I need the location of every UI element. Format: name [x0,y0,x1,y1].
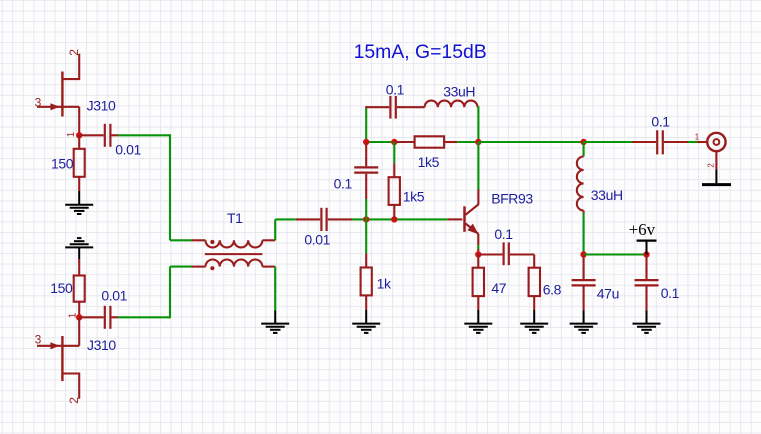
svg-text:1k5: 1k5 [403,189,425,205]
ground below R6 [464,310,492,333]
pin 1 label (connector) [695,132,700,141]
value label 0.01 (bottom) [101,288,127,304]
svg-text:47: 47 [491,280,506,296]
svg-text:2: 2 [67,49,81,56]
value label 1k [377,275,392,291]
phase dot T1 secondary [210,266,214,270]
value label 0.1 (emitter) [494,226,513,242]
node D junction (base row right) [391,216,397,222]
wire corner to T1 primary [170,239,192,241]
svg-text:0.01: 0.01 [304,231,330,247]
phase dot T1 primary [210,240,214,244]
transistor Q1 J310 (top JFET) body [37,54,79,117]
wire C2 to corner (bottom) [118,316,170,318]
connector X1 pin lead [697,141,706,143]
wire collector up [477,142,479,204]
wire C1 to corner [118,134,170,136]
svg-text:0.1: 0.1 [651,113,670,129]
pin 1 label (Q2 source) [67,312,78,318]
transformer T1 core [205,253,263,255]
wire top loop right vertical [476,106,479,142]
transistor Q2 J310 (bottom JFET) body [37,336,79,399]
wire T1 secondary down to ground [274,267,276,311]
wire mid row to node H [478,141,583,143]
ground below T1 secondary [261,311,289,333]
label J310 (top) [87,97,116,113]
ground below C8 [570,310,598,333]
resistor R6 47 [473,255,484,310]
svg-text:0.1: 0.1 [494,226,513,242]
svg-text:6.8: 6.8 [543,281,562,297]
svg-text:+6v: +6v [629,220,656,239]
resistor R2 150 (bottom) [74,259,85,317]
capacitor C6 0.1 (vertical mid) [354,142,378,219]
capacitor C2 0.01 (bottom) [79,306,118,329]
inductor L2 33uH (vertical) [577,142,584,255]
pin 2 label (Q2 drain) [67,397,81,404]
value label 0.1 (top loop) [386,82,405,98]
svg-text:T1: T1 [227,210,243,226]
resistor R7 6.8 [529,255,540,310]
node H junction (output row) [580,139,586,145]
ground below R5 [352,310,380,333]
ground above R2 (inverted) [65,238,93,259]
wire base lead [447,218,462,220]
svg-text:150: 150 [51,155,74,171]
node I junction (emitter) [475,251,481,257]
node K junction (supply rail right) [643,251,649,257]
pin 3 label (Q1 gate) [35,95,42,109]
wire emitter down [477,234,479,255]
wire corner to T1 secondary [170,266,192,268]
value label 150 (bottom) [50,280,73,296]
node J junction (supply rail left) [580,251,586,257]
wire vertical down to T1 primary [169,134,171,240]
label T1 [227,210,243,226]
capacitor C5 0.1 (top loop) [365,96,424,119]
resistor R1 150 (top) [74,135,85,191]
wire node H to C10 [584,141,632,143]
wire C10 to connector [688,141,697,143]
label J310 (bottom) [87,337,116,353]
svg-text:0.01: 0.01 [115,142,141,158]
capacitor C8 47u [572,255,596,311]
capacitor C9 0.1 (right) [635,255,659,311]
svg-text:1k: 1k [377,275,392,291]
wire mid row node C to node D [366,141,394,143]
ground below C9 [633,310,661,333]
resistor R4 1k5 (vertical) [389,142,400,219]
value label 33uH (vertical) [591,187,623,203]
wire T1 primary up [274,219,276,240]
ground below R7 [520,310,548,333]
value label 0.01 (top) [115,142,141,158]
pin 1 label (Q1 source) [66,131,77,137]
wire Q2 source to node B [78,317,80,346]
capacitor C1 0.01 (top) [79,124,118,147]
value label 1k5 (vertical) [403,189,425,205]
capacitor C10 0.1 (output) [632,130,688,154]
node G junction (mid row right) [475,139,481,145]
ground bar below connector [702,183,731,186]
pin 3 label (Q2 gate) [35,333,42,347]
svg-text:0.1: 0.1 [386,82,405,98]
svg-text:15mA, G=15dB: 15mA, G=15dB [354,41,487,63]
value label 6.8 [543,281,562,297]
inductor L1 33uH (top) [425,101,478,108]
svg-text:0.1: 0.1 [334,176,353,192]
transistor Q3 BFR93 body [465,204,479,234]
svg-text:47u: 47u [597,285,619,301]
svg-text:0.1: 0.1 [661,285,680,301]
value label 33uH (top) [443,84,475,100]
wire vertical up to T1 secondary [169,267,171,319]
capacitor C3 0.01 (mid) [296,208,352,231]
wire top loop left vertical [365,107,367,142]
title text [354,41,487,63]
node E junction (mid row left) [363,139,369,145]
ground below R1 [65,191,93,214]
wire T1 primary to C3 [275,218,296,220]
value label 47u [597,285,619,301]
connector X1 ground lead [715,151,717,183]
value label 0.1 (output) [651,113,670,129]
transformer T1 secondary winding [192,259,276,266]
capacitor C7 0.1 (emitter series) [478,242,534,265]
value label 47 [491,280,506,296]
svg-text:1: 1 [67,312,78,318]
value label 1k5 (horizontal) [418,154,440,170]
wire supply rail [584,253,647,255]
node A junction (Q1 source) [76,132,82,138]
svg-text:0.01: 0.01 [101,288,127,304]
label BFR93 [491,190,533,206]
svg-text:1: 1 [66,131,77,137]
value label 0.01 (mid) [304,231,330,247]
wire Q1 source to node A [78,107,80,136]
pin 2 label (connector) [707,163,716,168]
value label 150 (top) [51,155,74,171]
supply +6v symbol [637,241,657,255]
node F junction (mid row mid) [391,139,397,145]
transformer T1 primary winding [192,240,276,247]
svg-text:J310: J310 [87,97,116,113]
svg-text:J310: J310 [87,337,116,353]
wire base row [352,218,447,220]
value label 0.1 (vertical mid) [334,176,353,192]
svg-text:3: 3 [35,333,42,347]
svg-text:33uH: 33uH [591,187,623,203]
svg-text:2: 2 [67,397,81,404]
value label 0.1 (right) [661,285,680,301]
node C junction (base row left) [363,216,369,222]
label +6v [629,220,656,239]
svg-text:3: 3 [35,95,42,109]
svg-text:BFR93: BFR93 [491,190,533,206]
svg-text:150: 150 [50,280,73,296]
svg-text:33uH: 33uH [443,84,475,100]
resistor R3 1k5 (horizontal) [394,136,478,147]
resistor R5 1k [361,219,372,309]
node B junction (Q2 source) [76,314,82,320]
pin 2 label (Q1 drain) [67,49,81,56]
svg-text:1k5: 1k5 [418,154,440,170]
connector X1 (coax jack) [707,133,725,151]
